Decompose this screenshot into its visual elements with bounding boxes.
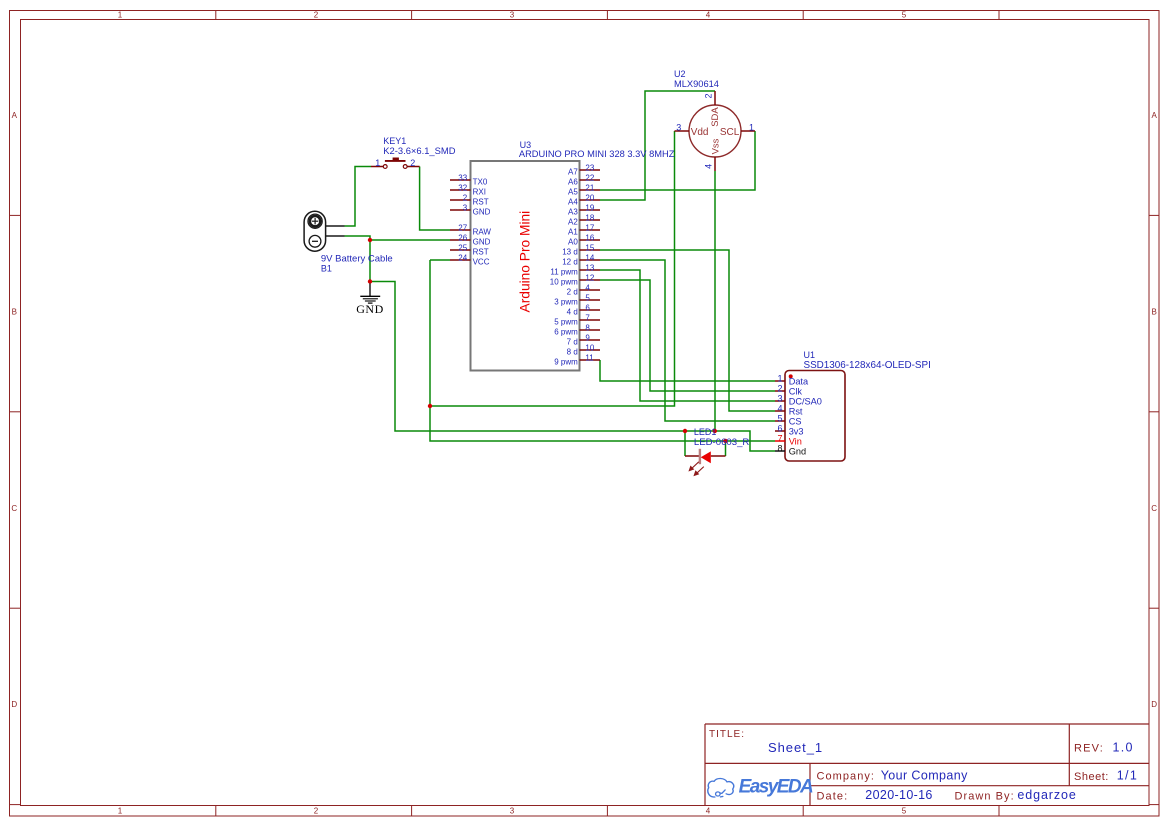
svg-text:8 d: 8 d (567, 347, 578, 356)
svg-text:RST: RST (473, 247, 489, 256)
svg-text:5: 5 (902, 807, 907, 816)
svg-text:K2-3.6×6.1_SMD: K2-3.6×6.1_SMD (383, 145, 455, 156)
wire VCC branch to MLX Vdd (430, 131, 675, 406)
title block (705, 724, 1149, 806)
svg-text:Your Company: Your Company (881, 769, 968, 783)
ground GND (356, 284, 384, 316)
junction LED-left (683, 429, 687, 433)
svg-text:Drawn By:: Drawn By: (955, 791, 1015, 803)
OLED pin 2 Clk (775, 383, 802, 396)
svg-text:3: 3 (510, 807, 515, 816)
svg-text:3: 3 (463, 204, 468, 213)
svg-text:1/1: 1/1 (1117, 768, 1138, 782)
pin 27 RAW (left) (450, 224, 491, 237)
svg-text:11 pwm: 11 pwm (550, 267, 578, 276)
svg-text:10 pwm: 10 pwm (550, 277, 578, 286)
svg-text:1: 1 (375, 158, 380, 168)
svg-text:2: 2 (463, 194, 468, 203)
svg-text:14: 14 (585, 254, 594, 263)
svg-text:8: 8 (585, 324, 590, 333)
svg-text:A6: A6 (568, 177, 578, 186)
svg-text:23: 23 (585, 164, 594, 173)
OLED pin 5 CS (775, 413, 801, 426)
pin 14 12 d (right) (562, 254, 600, 267)
svg-text:A1: A1 (568, 227, 578, 236)
svg-text:SDA: SDA (710, 107, 721, 127)
svg-text:LED-0603_R: LED-0603_R (694, 437, 750, 448)
svg-text:2: 2 (703, 93, 713, 98)
svg-text:4: 4 (703, 164, 713, 169)
svg-text:LED1: LED1 (694, 427, 717, 437)
svg-text:4: 4 (777, 403, 782, 413)
junction GND-2 (368, 279, 372, 283)
svg-text:6: 6 (777, 423, 782, 433)
svg-text:1: 1 (118, 11, 123, 20)
junction VCC-Vdd (428, 404, 432, 408)
svg-text:RST: RST (473, 197, 489, 206)
OLED pin 6 3v3 (775, 423, 804, 436)
svg-text:9 pwm: 9 pwm (554, 357, 578, 366)
pin 5 3 pwm (right) (554, 294, 600, 307)
wire U3 11pwm to OLED DC/SA0 (600, 270, 775, 401)
svg-text:6: 6 (585, 304, 590, 313)
LED emission arrows (689, 462, 704, 476)
svg-text:Vdd: Vdd (691, 127, 709, 138)
svg-text:17: 17 (585, 224, 594, 233)
svg-text:2020-10-16: 2020-10-16 (865, 788, 932, 802)
svg-text:D: D (1151, 700, 1157, 709)
svg-text:2: 2 (314, 11, 319, 20)
svg-text:5: 5 (585, 294, 590, 303)
pin 26 GND (left) (450, 234, 491, 247)
pin 7 5 pwm (right) (554, 314, 600, 327)
svg-text:U2: U2 (674, 69, 686, 79)
svg-text:A2: A2 (568, 217, 578, 226)
EasyEDA logo (708, 776, 813, 797)
svg-text:RAW: RAW (473, 227, 492, 236)
svg-text:3: 3 (676, 122, 681, 132)
wire GND net to OLED Gnd (370, 282, 775, 452)
pin 2 RST (left) (450, 194, 489, 207)
svg-text:1: 1 (777, 373, 782, 383)
svg-text:4: 4 (585, 284, 590, 293)
pin 15 13 d (right) (562, 244, 600, 257)
LED triangle (701, 451, 711, 463)
sensor U2 MLX90614 (674, 69, 755, 171)
svg-text:5: 5 (902, 11, 907, 20)
svg-text:C: C (11, 504, 17, 513)
pin 2 SDA (top) (703, 91, 721, 127)
svg-text:1.0: 1.0 (1113, 740, 1134, 754)
svg-text:RXI: RXI (473, 187, 486, 196)
OLED pin 3 DC/SA0 (775, 393, 822, 406)
svg-text:12: 12 (585, 274, 594, 283)
svg-text:5 pwm: 5 pwm (554, 317, 578, 326)
svg-text:3: 3 (510, 11, 515, 20)
pin 4 2 d (right) (567, 284, 600, 297)
svg-text:B1: B1 (321, 263, 332, 273)
wire KEY1 pin2 to U3 RAW (420, 167, 450, 231)
pin 3 GND (left) (450, 204, 491, 217)
pin 4 Vss (bottom) (703, 138, 721, 171)
svg-text:B: B (12, 307, 17, 316)
wire U3 13d to OLED Rst (600, 250, 775, 411)
svg-text:ARDUINO PRO MINI 328 3.3V 8MHZ: ARDUINO PRO MINI 328 3.3V 8MHZ (519, 149, 675, 159)
pin 21 A5 (right) (568, 184, 600, 197)
svg-text:21: 21 (585, 184, 594, 193)
svg-text:32: 32 (458, 184, 467, 193)
svg-text:12 d: 12 d (562, 257, 578, 266)
pin 33 TX0 (left) (450, 174, 488, 187)
svg-text:MLX90614: MLX90614 (674, 79, 719, 89)
svg-text:4 d: 4 d (567, 307, 578, 316)
wire U3 10pwm to OLED Clk (600, 280, 775, 391)
pin 8 6 pwm (right) (554, 324, 600, 337)
wire LED1 anode drop (684, 431, 686, 456)
OLED pin 4 Rst (775, 403, 803, 416)
svg-text:27: 27 (458, 224, 467, 233)
svg-text:Data: Data (789, 377, 809, 387)
svg-text:7 d: 7 d (567, 337, 578, 346)
svg-text:4: 4 (706, 11, 711, 20)
svg-text:SSD1306-128x64-OLED-SPI: SSD1306-128x64-OLED-SPI (804, 360, 931, 371)
junction Vss-GND (713, 429, 717, 433)
pin 13 11 pwm (right) (550, 264, 600, 277)
svg-text:33: 33 (458, 174, 467, 183)
pin 16 A0 (right) (568, 234, 600, 247)
svg-text:REV:: REV: (1074, 743, 1104, 755)
svg-text:Date:: Date: (817, 791, 849, 803)
wire U3 12d to OLED CS (600, 260, 775, 421)
wire U3 A5 to MLX SCL (600, 131, 755, 190)
svg-text:SCL: SCL (720, 127, 740, 138)
svg-text:6 pwm: 6 pwm (554, 327, 578, 336)
svg-text:Rst: Rst (789, 407, 803, 417)
svg-text:3 pwm: 3 pwm (554, 297, 578, 306)
OLED module U1 SSD1306-128x64-OLED-SPI (775, 350, 931, 461)
wire MLX Vss to GND net (714, 171, 716, 431)
svg-text:edgarzoe: edgarzoe (1017, 788, 1076, 802)
svg-text:1: 1 (749, 122, 754, 132)
svg-text:8: 8 (777, 443, 782, 453)
svg-text:A3: A3 (568, 207, 578, 216)
svg-text:A: A (12, 111, 18, 120)
pin 12 10 pwm (right) (550, 274, 600, 287)
svg-text:D: D (11, 700, 17, 709)
svg-text:Gnd: Gnd (789, 447, 806, 457)
svg-text:19: 19 (585, 204, 594, 213)
pin 23 A7 (right) (568, 164, 600, 177)
wire battery- to U3 GND net (345, 236, 451, 240)
svg-text:9: 9 (585, 334, 590, 343)
svg-text:A: A (1152, 111, 1158, 120)
svg-text:16: 16 (585, 234, 594, 243)
svg-text:Arduino Pro Mini: Arduino Pro Mini (518, 211, 533, 313)
svg-text:B: B (1152, 307, 1157, 316)
svg-text:GND: GND (473, 207, 491, 216)
pin 24 VCC (left) (450, 254, 490, 267)
svg-text:1: 1 (118, 807, 123, 816)
svg-text:Clk: Clk (789, 387, 803, 397)
svg-text:5: 5 (777, 413, 782, 423)
pin 9 7 d (right) (567, 334, 600, 347)
svg-text:Vss: Vss (710, 138, 721, 154)
svg-text:C: C (1151, 504, 1157, 513)
junction LED-right (723, 439, 727, 443)
pin 17 A1 (right) (568, 224, 600, 237)
svg-text:20: 20 (585, 194, 594, 203)
svg-text:GND: GND (473, 237, 491, 246)
wire GND net down (369, 240, 371, 282)
svg-text:22: 22 (585, 174, 594, 183)
svg-text:A5: A5 (568, 187, 578, 196)
svg-text:7: 7 (777, 433, 782, 443)
wire LED1 cathode drop (725, 441, 727, 456)
LED cathode bar (699, 449, 701, 464)
svg-text:7: 7 (585, 314, 590, 323)
svg-text:Vin: Vin (789, 437, 802, 447)
svg-text:EasyEDA: EasyEDA (739, 776, 813, 797)
svg-text:VCC: VCC (473, 257, 490, 266)
OLED pin 1 Data (775, 373, 809, 386)
OLED pin1 marker dot (789, 374, 793, 378)
pin 20 A4 (right) (568, 194, 600, 207)
pin 10 8 d (right) (567, 344, 600, 357)
svg-text:3v3: 3v3 (789, 427, 804, 437)
svg-text:Company:: Company: (817, 771, 876, 783)
svg-text:25: 25 (458, 244, 467, 253)
pin 18 A2 (right) (568, 214, 600, 227)
wire battery+ to KEY1 pin1 (345, 167, 372, 227)
pin 25 RST (left) (450, 244, 489, 257)
svg-text:GND: GND (356, 302, 384, 316)
battery connector B1 (304, 211, 393, 273)
svg-text:18: 18 (585, 214, 594, 223)
svg-text:A4: A4 (568, 197, 578, 206)
pin 11 9 pwm (right) (554, 354, 600, 367)
svg-text:A0: A0 (568, 237, 578, 246)
svg-text:2: 2 (410, 158, 415, 168)
svg-text:A7: A7 (568, 167, 578, 176)
pin 19 A3 (right) (568, 204, 600, 217)
IC U3 ARDUINO PRO MINI 328 (450, 140, 675, 371)
wire VCC to U3 pin24 (430, 259, 450, 261)
svg-text:DC/SA0: DC/SA0 (789, 397, 822, 407)
junction GND-1 (368, 238, 372, 242)
svg-text:TITLE:: TITLE: (709, 729, 745, 740)
svg-text:10: 10 (585, 344, 594, 353)
pin 32 RXI (left) (450, 184, 486, 197)
pin 3 Vdd (left) (675, 122, 709, 138)
svg-text:26: 26 (458, 234, 467, 243)
wire U3 A4 to MLX SDA (600, 91, 715, 200)
svg-text:2: 2 (314, 807, 319, 816)
svg-text:4: 4 (706, 807, 711, 816)
svg-text:13: 13 (585, 264, 594, 273)
LED LED1 LED-0603_R (685, 427, 749, 475)
svg-text:U1: U1 (804, 350, 816, 360)
svg-text:2: 2 (777, 383, 782, 393)
pin 1 SCL (right) (720, 122, 755, 138)
OLED pin 7 Vin (775, 433, 802, 446)
svg-text:Sheet_1: Sheet_1 (768, 740, 823, 755)
wire VCC rail down to Vin (430, 260, 775, 441)
svg-text:24: 24 (458, 254, 467, 263)
svg-text:TX0: TX0 (473, 177, 488, 186)
svg-text:CS: CS (789, 417, 802, 427)
pin 22 A6 (right) (568, 174, 600, 187)
pin 6 4 d (right) (567, 304, 600, 317)
svg-text:3: 3 (777, 393, 782, 403)
svg-text:11: 11 (585, 354, 594, 363)
svg-text:15: 15 (585, 244, 594, 253)
wire U3 9pwm to OLED Data (600, 360, 775, 381)
OLED pin 8 Gnd (775, 443, 806, 456)
pushbutton KEY1 (371, 136, 456, 168)
svg-text:13 d: 13 d (562, 247, 578, 256)
svg-text:2 d: 2 d (567, 287, 578, 296)
svg-text:Sheet:: Sheet: (1074, 771, 1109, 783)
